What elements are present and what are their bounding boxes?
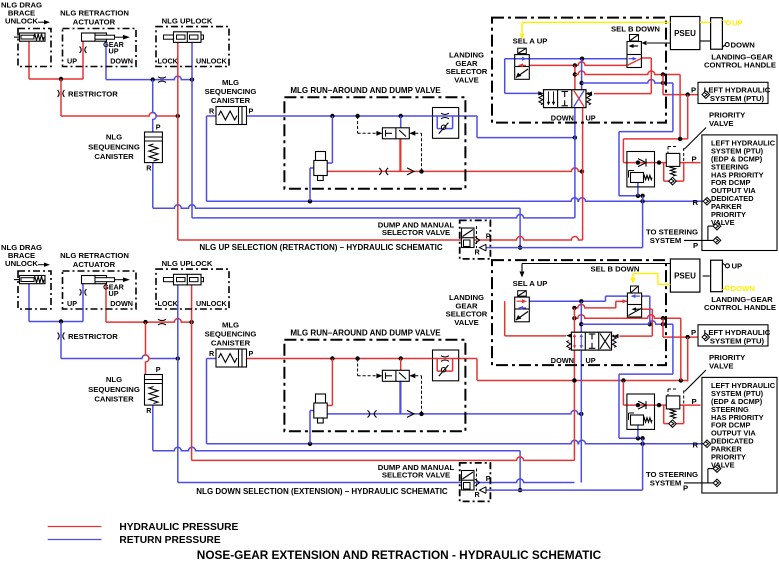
- svg-text:RESTRICTOR: RESTRICTOR: [68, 332, 118, 341]
- wire return from selector to R: [672, 324, 674, 374]
- svg-text:P: P: [691, 86, 696, 95]
- svg-text:SEQUENCING: SEQUENCING: [88, 142, 140, 151]
- svg-text:SELECTOR VALVE: SELECTOR VALVE: [382, 470, 450, 479]
- dump valve return check: [480, 487, 487, 494]
- svg-text:RETURN PRESSURE: RETURN PRESSURE: [119, 535, 221, 546]
- svg-text:UP: UP: [586, 113, 596, 122]
- priority valve assembly box: [627, 152, 655, 187]
- dump valve pilot dashed left: [358, 375, 377, 377]
- black wire PSEU to SEL A: [522, 263, 671, 265]
- wire return row to left hydraulic system R: [207, 198, 704, 201]
- unlock arrow: [38, 21, 45, 23]
- svg-text:CANISTER: CANISTER: [94, 395, 134, 404]
- PSEU box: [670, 259, 700, 292]
- regulator in assembly: [631, 173, 644, 183]
- svg-text:NLG: NLG: [106, 132, 122, 141]
- wire riser to PTU P row: [662, 75, 664, 95]
- orifice on uplock row: [158, 319, 166, 325]
- check into system R: [703, 440, 711, 448]
- svg-text:SEQUENCING: SEQUENCING: [205, 87, 257, 96]
- svg-text:R: R: [475, 490, 481, 499]
- uplock actuator symbol: [164, 35, 204, 39]
- drag brace actuator symbol: [20, 276, 46, 284]
- wire riser P to priority row: [687, 337, 689, 381]
- check valve in bypass: [669, 177, 677, 185]
- priority valve callout line: [685, 370, 707, 392]
- svg-text:CONTROL HANDLE: CONTROL HANDLE: [704, 303, 776, 312]
- svg-text:CANISTER: CANISTER: [211, 339, 251, 348]
- retraction actuator cylinder: [82, 276, 107, 284]
- wire spool UP port riser: [582, 108, 584, 240]
- dump valve check to P: [475, 479, 480, 486]
- wire crossover drop: [680, 318, 682, 380]
- black link PSEU to handle: [703, 275, 710, 277]
- svg-text:MLG: MLG: [222, 78, 239, 87]
- svg-text:LOCK: LOCK: [158, 299, 179, 308]
- svg-text:SEL B DOWN: SEL B DOWN: [591, 264, 640, 273]
- svg-text:UP: UP: [586, 356, 596, 365]
- wire UNLOCK long row to selector valve: [192, 214, 575, 217]
- wire MLG canister R return: [207, 115, 217, 117]
- MLG sequencing canister: [216, 107, 247, 125]
- svg-text:R: R: [146, 406, 152, 415]
- wire LOCK long row to selector valve: [178, 479, 575, 483]
- restrictor on actuator line: [80, 47, 87, 54]
- uplock actuator symbol: [164, 278, 204, 282]
- wire dump solenoid outlet: [399, 139, 401, 172]
- priority valve assembly box: [627, 394, 655, 429]
- svg-text:NLG RETRACTION: NLG RETRACTION: [60, 9, 129, 18]
- svg-text:NLG UPLOCK: NLG UPLOCK: [162, 259, 213, 268]
- restrictor check module: [433, 108, 459, 139]
- wire SEL B outlet to spool right pilot: [641, 57, 651, 59]
- priority valve callout line: [685, 128, 707, 150]
- MLG run-around and dump valve box: [284, 340, 465, 432]
- svg-text:SYSTEM (PTU): SYSTEM (PTU): [710, 94, 765, 103]
- landing gear selector valve box: [492, 260, 666, 365]
- accumulator component: [316, 152, 326, 161]
- wire relief module drain: [637, 183, 639, 196]
- svg-text:NLG RETRACTION: NLG RETRACTION: [60, 251, 129, 260]
- legend hydraulic pressure line: [48, 526, 102, 528]
- wire NLG canister P feed: [153, 80, 157, 132]
- wire SEL B outlet to spool right pilot: [642, 308, 653, 310]
- wire pressure crossover row: [575, 71, 680, 75]
- check valve on lower row: [407, 410, 414, 417]
- handle UP contact (black): [722, 263, 725, 266]
- svg-text:ACTUATOR: ACTUATOR: [73, 17, 116, 26]
- svg-text:PSEU: PSEU: [674, 29, 696, 38]
- svg-text:MLG RUN–AROUND AND DUMP VALVE: MLG RUN–AROUND AND DUMP VALVE: [290, 86, 441, 95]
- wire uplock LOCK drop: [177, 42, 179, 240]
- svg-text:LEFT HYDRAULIC: LEFT HYDRAULIC: [704, 328, 771, 337]
- selector spool valve: [571, 332, 611, 350]
- steering check valves: [713, 222, 721, 230]
- wire priority module row: [623, 404, 700, 406]
- bypass check valve symbol: [441, 368, 445, 372]
- check into PTU: [702, 91, 710, 99]
- svg-text:LOCK: LOCK: [158, 56, 179, 65]
- wire red riser to spool top: [573, 308, 575, 332]
- check valve in assembly: [638, 159, 646, 167]
- spool end springs: [567, 341, 571, 350]
- wire priority module drop: [622, 381, 624, 405]
- SEL B solenoid valve: [630, 35, 639, 42]
- wire relief bypass loop: [663, 163, 665, 182]
- svg-text:P: P: [692, 397, 697, 406]
- spool left pilot arrow: [538, 91, 543, 95]
- svg-text:LEFT HYDRAULIC: LEFT HYDRAULIC: [704, 85, 771, 94]
- dump valve pilot dashed right: [415, 375, 421, 377]
- wire uplock LOCK drop: [177, 285, 179, 483]
- svg-text:DOWN: DOWN: [731, 284, 756, 293]
- wire accumulator feed: [331, 359, 333, 406]
- wire DOWN port row with orifice: [105, 284, 107, 322]
- wire spool DOWN port riser: [573, 350, 575, 460]
- wire return row east: [582, 80, 673, 84]
- svg-text:NLG: NLG: [106, 375, 122, 384]
- wire relief bypass loop: [663, 405, 665, 424]
- svg-text:CANISTER: CANISTER: [94, 152, 134, 161]
- wire pressure crossover row: [574, 315, 680, 319]
- wire riser to pressure crossover row: [574, 65, 576, 89]
- svg-text:SYSTEM (PTU): SYSTEM (PTU): [710, 337, 765, 346]
- wire priority feed row: [623, 138, 687, 140]
- dump valve pilot dashed right: [415, 132, 421, 134]
- svg-text:R: R: [146, 164, 152, 173]
- svg-text:SEQUENCING: SEQUENCING: [88, 385, 140, 394]
- svg-text:P: P: [156, 365, 161, 374]
- unlock arrow: [38, 264, 45, 266]
- svg-text:SYSTEM: SYSTEM: [650, 478, 682, 487]
- wire R riser to dump return row: [642, 444, 644, 490]
- NLG drag brace unlock box: [18, 29, 51, 67]
- handle DOWN contact (yellow): [722, 288, 725, 290]
- wire relief module drain: [637, 425, 639, 438]
- wire SEL A row to SEL B valve: [505, 58, 627, 60]
- wire NLG canister R return: [152, 163, 154, 209]
- drag brace actuator symbol: [20, 33, 46, 41]
- wire MLG main row through run-around valve: [247, 358, 478, 360]
- black wire PSEU to SEL B: [647, 42, 670, 44]
- svg-text:CONTROL HANDLE: CONTROL HANDLE: [704, 61, 776, 70]
- restrictor symbol: [58, 90, 65, 97]
- wire SEL B blue outlet down to return row: [642, 295, 650, 297]
- wire restrictor row to LOCK net: [61, 113, 178, 116]
- svg-text:P: P: [691, 328, 696, 337]
- svg-text:VALVE: VALVE: [454, 75, 479, 84]
- wire LOCK long row to selector valve: [178, 237, 583, 240]
- svg-text:UP: UP: [109, 46, 119, 55]
- wire dump solenoid outlet: [399, 381, 401, 414]
- wire UP port drop with gear-up restrictor: [82, 41, 84, 79]
- svg-text:P: P: [693, 241, 698, 250]
- wire R riser to dump return row: [642, 201, 644, 247]
- wire return from selector to R: [672, 83, 674, 132]
- check into system R: [703, 198, 711, 206]
- wire uplock UNLOCK drop: [191, 285, 193, 461]
- to steering wiring: [684, 239, 714, 241]
- wire run-around row to spool DOWN riser: [477, 137, 575, 139]
- svg-text:NLG DOWN SELECTION (EXTENSION): NLG DOWN SELECTION (EXTENSION) – HYDRAUL…: [196, 487, 448, 496]
- wire priority module row: [623, 162, 700, 164]
- wire spool UP port riser: [580, 350, 582, 482]
- wire spool DOWN port riser: [574, 108, 576, 218]
- wire UNLOCK long row to selector valve: [192, 457, 575, 460]
- svg-text:MLG RUN–AROUND AND DUMP VALVE: MLG RUN–AROUND AND DUMP VALVE: [290, 329, 441, 338]
- wire SEL A blue row toward SEL B valve: [529, 300, 605, 302]
- dump and manual selector valve box: [460, 463, 491, 502]
- svg-text:CANISTER: CANISTER: [211, 96, 251, 105]
- landing gear control handle box: [711, 260, 723, 292]
- NLG sequencing canister: [145, 375, 163, 406]
- retraction actuator cylinder: [82, 33, 107, 41]
- left hydraulic system PTU box: [698, 82, 768, 103]
- svg-text:PSEU: PSEU: [674, 272, 696, 281]
- wire crossover drop: [679, 75, 681, 139]
- wire spool pressure row from riser: [574, 304, 615, 308]
- wire drag-brace to UP-port row: [28, 284, 30, 322]
- svg-text:UNLOCK: UNLOCK: [5, 259, 38, 268]
- svg-text:NOSE-GEAR EXTENSION AND RETRAC: NOSE-GEAR EXTENSION AND RETRACTION - HYD…: [197, 548, 602, 562]
- check valve on lower row: [407, 168, 414, 175]
- svg-text:P: P: [156, 123, 161, 132]
- PSEU box: [670, 17, 700, 50]
- electric wire PSEU to handle (yellow): [700, 21, 711, 23]
- svg-text:UNLOCK: UNLOCK: [5, 17, 38, 26]
- svg-text:MLG: MLG: [222, 320, 239, 329]
- wire restrictor drop: [60, 79, 62, 116]
- wire SEL A loop to spool left pilot: [504, 59, 506, 94]
- svg-text:P: P: [692, 154, 697, 163]
- svg-text:SEL A UP: SEL A UP: [513, 37, 548, 46]
- svg-text:UP: UP: [109, 289, 119, 298]
- wire MLG lower row: [316, 410, 581, 413]
- electric wire PSEU to SEL A (yellow): [522, 21, 670, 23]
- dump solenoid valve: [382, 370, 409, 381]
- dump and manual selector valve box: [460, 220, 491, 259]
- restrictor on lower row: [368, 410, 377, 417]
- dump and manual selector valve body: [462, 228, 475, 248]
- selector spool valve: [544, 90, 587, 108]
- wire NLG canister P feed: [146, 322, 150, 374]
- accumulator component: [316, 394, 326, 403]
- gear-up arrow: [115, 279, 125, 281]
- priority relief valve: [666, 153, 680, 166]
- wire dump solenoid feed: [400, 359, 402, 371]
- wire MLG main row through run-around valve: [247, 115, 478, 117]
- SEL A solenoid valve: [518, 48, 527, 53]
- svg-text:DOWN: DOWN: [551, 356, 574, 365]
- svg-text:P: P: [486, 474, 491, 483]
- wire SEL A loop to spool left pilot: [504, 301, 506, 336]
- svg-text:DOWN: DOWN: [110, 299, 133, 308]
- wire P row to left hydraulic system: [663, 336, 699, 338]
- wire P row to left hydraulic system: [663, 94, 699, 96]
- NLG uplock box: [156, 27, 229, 67]
- svg-text:VALVE: VALVE: [454, 318, 479, 327]
- legend return pressure line: [48, 539, 102, 541]
- black link PSEU to handle: [700, 40, 711, 42]
- dump valve pilot dashed left: [358, 132, 377, 134]
- handle UP contact (yellow): [722, 20, 726, 23]
- SEL B solenoid valve: [631, 286, 639, 293]
- svg-text:P: P: [249, 106, 254, 115]
- SEL A solenoid valve: [518, 291, 527, 296]
- left hydraulic system PTU box: [698, 325, 768, 346]
- steering check valves: [713, 465, 721, 473]
- wire MLG lower row: [316, 168, 582, 172]
- wire priority module drop: [622, 139, 624, 163]
- wire accumulator drain: [310, 410, 314, 412]
- bypass check valve symbol: [441, 125, 445, 129]
- wire accumulator feed: [331, 116, 333, 163]
- wire return row east: [581, 321, 673, 325]
- svg-text:R: R: [693, 198, 699, 207]
- to steering wiring: [684, 482, 714, 484]
- svg-text:SYSTEM: SYSTEM: [650, 236, 682, 245]
- wire UP port drop with gear-up restrictor: [82, 284, 84, 322]
- wire return row to left hydraulic system R: [207, 440, 704, 443]
- dump valve return check: [480, 244, 487, 251]
- dump and manual selector valve body: [462, 471, 475, 491]
- orifice on uplock row: [158, 77, 166, 83]
- svg-text:UP: UP: [67, 56, 77, 65]
- svg-text:SEL B DOWN: SEL B DOWN: [611, 24, 660, 33]
- priority relief valve: [666, 396, 680, 409]
- svg-text:P: P: [249, 349, 254, 358]
- svg-text:SEL A UP: SEL A UP: [513, 279, 548, 288]
- MLG run-around and dump valve box: [284, 97, 465, 189]
- NLG drag brace unlock box: [18, 271, 51, 309]
- wire SEL A pressure row: [529, 62, 627, 66]
- svg-text:UP: UP: [67, 299, 77, 308]
- regulator in assembly: [631, 415, 644, 425]
- gear-up arrow: [115, 36, 125, 38]
- landing gear control handle box: [711, 18, 723, 50]
- svg-text:DOWN: DOWN: [110, 56, 133, 65]
- left hydraulic system text box: [702, 377, 777, 493]
- svg-text:UNLOCK: UNLOCK: [196, 56, 228, 65]
- wire accumulator drain: [310, 167, 314, 169]
- NLG retraction actuator box: [63, 29, 137, 67]
- wire riser to PTU P row: [662, 318, 664, 337]
- svg-text:R: R: [693, 441, 699, 450]
- dump solenoid valve: [382, 128, 409, 139]
- svg-text:VALVE: VALVE: [709, 119, 734, 128]
- pilot arrowhead at spool right: [587, 91, 592, 95]
- landing gear selector valve box: [492, 18, 666, 123]
- wire restrictor drop: [60, 322, 62, 359]
- restrictor check module: [433, 350, 459, 381]
- svg-text:R: R: [475, 248, 481, 257]
- wire NLG canister R return: [152, 405, 154, 451]
- spool end springs: [539, 93, 543, 105]
- svg-text:R: R: [209, 349, 215, 358]
- svg-text:DOWN: DOWN: [731, 41, 756, 50]
- svg-text:ACTUATOR: ACTUATOR: [73, 260, 116, 269]
- dump valve check to P: [475, 237, 480, 244]
- spool left pilot arrow: [566, 334, 571, 338]
- check valve in assembly: [638, 401, 646, 409]
- svg-text:P: P: [683, 483, 688, 492]
- pilot arrowhead at spool right: [614, 334, 619, 338]
- svg-text:RESTRICTOR: RESTRICTOR: [68, 89, 118, 98]
- wire dump solenoid feed: [400, 116, 402, 128]
- NLG sequencing canister: [145, 132, 163, 163]
- NLG uplock box: [156, 269, 229, 309]
- svg-text:UP: UP: [732, 262, 743, 271]
- wire uplock UNLOCK drop: [191, 42, 193, 218]
- svg-text:SELECTOR VALVE: SELECTOR VALVE: [382, 228, 450, 237]
- restrictor on lower row: [379, 168, 388, 175]
- left hydraulic system text box: [702, 135, 777, 251]
- svg-text:NLG UPLOCK: NLG UPLOCK: [162, 16, 213, 25]
- wire dump return row: [486, 489, 643, 491]
- wire restrictor row to LOCK net: [61, 355, 178, 359]
- wire blue riser to spool top: [580, 301, 582, 332]
- svg-text:SEQUENCING: SEQUENCING: [205, 329, 257, 338]
- wire dump return row: [486, 247, 643, 249]
- MLG sequencing canister: [216, 349, 247, 367]
- svg-text:NLG UP SELECTION (RETRACTION): NLG UP SELECTION (RETRACTION) – HYDRAULI…: [199, 243, 442, 252]
- wire blue riser to spool: [581, 59, 583, 90]
- svg-text:VALVE: VALVE: [709, 362, 734, 371]
- svg-text:UP: UP: [732, 19, 743, 28]
- svg-text:HYDRAULIC PRESSURE: HYDRAULIC PRESSURE: [119, 522, 238, 533]
- wire run-around row to priority network: [477, 380, 688, 382]
- wire drag-brace to UP-port row: [28, 41, 30, 79]
- check into PTU: [702, 333, 710, 341]
- svg-text:R: R: [209, 106, 215, 115]
- restrictor symbol: [58, 333, 65, 340]
- svg-text:UNLOCK: UNLOCK: [196, 299, 228, 308]
- electric wire PSEU to SEL B (yellow): [658, 283, 671, 285]
- wire riser P to priority row: [687, 95, 689, 139]
- wire DOWN port row with orifice: [105, 41, 107, 79]
- wire MLG canister R return: [207, 358, 217, 360]
- NLG retraction actuator box: [63, 271, 137, 309]
- svg-text:DOWN: DOWN: [551, 113, 574, 122]
- restrictor on actuator line: [80, 289, 87, 296]
- svg-text:P: P: [486, 232, 491, 241]
- handle DOWN contact (black): [722, 45, 725, 47]
- check valve in bypass: [669, 420, 677, 428]
